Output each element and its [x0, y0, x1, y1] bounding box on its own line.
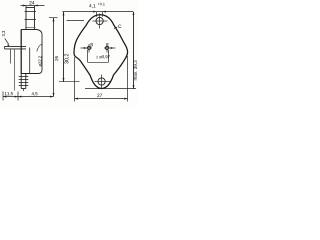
pin E circle	[105, 46, 108, 49]
pin B label	[91, 43, 93, 46]
pin count text	[96, 56, 98, 58]
left view height dim line	[53, 18, 55, 97]
dimension 27 text	[97, 94, 102, 97]
pin E label	[107, 43, 109, 46]
cap right edge	[34, 6, 36, 30]
pin spacing right tail arrow	[109, 47, 112, 49]
bottom hole centerline extension left	[59, 81, 80, 83]
flexible lead right line	[25, 74, 27, 89]
flexible lead tick 2	[19, 79, 29, 81]
left view height top tick	[49, 17, 58, 19]
pin spacing right tail	[112, 47, 116, 49]
left view height vertical text	[55, 56, 58, 61]
overall length top arrow	[133, 12, 135, 15]
overall length bottom arrow	[133, 85, 135, 88]
dimension 11,5 text	[5, 92, 13, 96]
pin spacing left tail	[81, 47, 85, 49]
pin spacing ext left	[87, 50, 89, 62]
flange thickness vertical text	[2, 31, 5, 36]
bottom hole horizontal centerline	[95, 81, 111, 83]
flexible lead tick 1	[19, 76, 29, 78]
bottom dim arrow left	[3, 96, 6, 98]
dimension 27 line	[75, 98, 128, 100]
flange left end cap	[4, 46, 6, 49]
collector leader	[114, 27, 117, 29]
cap seam tick 1	[25, 11, 37, 13]
bottom dim arrow mid-r	[18, 96, 21, 98]
flexible lead tick 3	[19, 82, 29, 84]
body right wall	[38, 35, 42, 74]
hole spacing bottom arrow	[63, 78, 65, 81]
bottom dim arrow mid-l	[15, 96, 18, 98]
pin left line	[10, 49, 12, 64]
hole dim ext left	[96, 12, 98, 17]
overall length dim line	[133, 12, 135, 89]
bottom chained dim line	[3, 96, 54, 98]
pin B horizontal centerline	[86, 47, 92, 49]
dimension 24 left arrow	[23, 5, 26, 7]
top mounting hole	[96, 17, 103, 24]
dimension tolerance +0,1 text	[98, 3, 105, 6]
overall length vertical text	[134, 61, 138, 81]
bottom dim ext tick left	[2, 92, 4, 101]
flange bottom line	[5, 48, 27, 50]
flange diamond outline	[74, 15, 128, 89]
flexible lead tick 4	[19, 85, 29, 87]
collector label C	[118, 25, 121, 28]
flexible lead tail	[23, 89, 25, 92]
body left wall	[20, 30, 22, 74]
hole dim arrow right	[103, 11, 106, 13]
dimension 24 text	[29, 1, 34, 4]
flexible lead left line	[20, 74, 22, 89]
top long dimension line	[63, 11, 134, 13]
dimension 24 line	[21, 5, 45, 7]
dimension 4,5 text	[32, 92, 38, 96]
pin E horizontal centerline	[104, 47, 110, 49]
pin spacing ext right	[107, 50, 109, 62]
hole dim ext right	[102, 12, 104, 17]
top hole centerline extension left	[67, 20, 85, 22]
width dim ext left	[74, 57, 76, 102]
pin B circle	[87, 46, 90, 49]
flange top line	[5, 45, 27, 47]
bottom extension line	[85, 88, 136, 90]
bottom dim arrow right	[50, 96, 53, 98]
left view height top arrow	[53, 18, 55, 21]
cap top line	[26, 7, 35, 9]
dimension 4,1 text	[89, 4, 95, 8]
pin diameter text	[99, 55, 109, 58]
body inner fillet	[37, 44, 42, 52]
pin right line	[14, 49, 16, 91]
pin spacing bottom line	[88, 61, 109, 63]
body inner diameter vertical text	[38, 56, 41, 66]
body shoulder line	[21, 30, 42, 35]
dimension 30,2 vertical text	[65, 54, 69, 64]
bottom mounting hole	[98, 78, 105, 85]
top hole vertical centerline	[99, 14, 101, 29]
pin B vertical centerline	[88, 44, 90, 53]
flexible lead bottom	[21, 88, 26, 90]
dimension 27 left arrow	[75, 98, 78, 100]
dimension 24 right arrow	[35, 5, 38, 7]
flange leader arrow	[5, 39, 9, 45]
bottom dim ext tick mid	[17, 92, 19, 101]
bottom hole vertical centerline	[101, 75, 103, 90]
left view height bottom arrow	[53, 93, 55, 96]
body bottom line	[21, 73, 38, 75]
body inner wall	[29, 48, 31, 74]
top hole horizontal centerline	[93, 20, 108, 22]
cap seam tick 2	[25, 19, 37, 21]
width dim ext right	[127, 56, 129, 102]
pin E vertical centerline	[106, 44, 108, 53]
dimension 27 right arrow	[124, 98, 127, 100]
cap rim tick	[25, 26, 36, 28]
hole spacing dim line	[63, 12, 65, 82]
pin spacing left tail arrow	[84, 47, 87, 49]
cap left edge	[25, 6, 27, 30]
hole dim arrow left	[93, 11, 96, 13]
hole spacing top arrow	[63, 12, 65, 15]
